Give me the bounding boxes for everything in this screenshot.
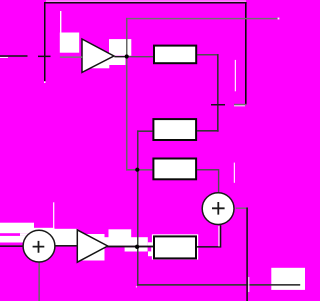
white sliver right of output vertical at bottom bbox=[248, 277, 249, 292]
wire block B3 output vertical to sum S2 bbox=[218, 169, 219, 193]
white tip at end of gray horizontal wire bbox=[278, 18, 280, 20]
label patch (white) behind sum S1 bbox=[34, 228, 55, 243]
wire input stub far left bbox=[0, 55, 28, 57]
wire top-right vertical bbox=[245, 2, 247, 105]
wire top-left vertical bbox=[44, 2, 46, 81]
wire gain G1 output to junction bbox=[114, 56, 127, 57]
wire sum S1 input from left bbox=[0, 245, 23, 247]
white vertical line above sum S1 bbox=[53, 202, 54, 229]
output block (borderless white rectangle) bottom right bbox=[271, 268, 305, 290]
label patch thin vertical white line above it bbox=[60, 11, 61, 33]
wire long gray horizontal near top bbox=[126, 18, 278, 19]
label patch (white) between sum S1 and gain G2 bbox=[53, 229, 77, 246]
white sliver below gray tick bbox=[234, 104, 245, 107]
label patch (white) right of gain G1 top bbox=[109, 39, 131, 56]
wire block B4 output horizontal bbox=[197, 246, 221, 248]
label patch (white) sliver at block B4 left edge bbox=[151, 247, 153, 251]
cross tick on left vertical wire bbox=[38, 56, 51, 58]
wire block B1 output vertical down bbox=[217, 54, 219, 132]
label patch (white) behind gain G2 bbox=[79, 234, 105, 261]
white inner corner dot at bottom wire corner bbox=[136, 286, 137, 287]
small white patch left of block B4 above wire bbox=[148, 242, 152, 245]
wire gain G2 output to block B4 bbox=[107, 246, 153, 248]
block B4 (bottom transfer block) bbox=[154, 236, 196, 258]
white sliver left of sum S2 bottom wire bbox=[218, 226, 219, 246]
white line remnant right of sum S2 column bbox=[234, 163, 235, 183]
wire top horizontal bbox=[44, 2, 247, 4]
wire gain G1 input stub bbox=[60, 56, 82, 58]
gray tick at bottom of top-right vertical bbox=[234, 104, 246, 106]
label patch (white) above gain G2 output wire bbox=[105, 237, 148, 246]
wire block B2 output horizontal bbox=[197, 130, 219, 132]
block B1 (top transfer block) bbox=[154, 46, 196, 64]
white tip at end of left vertical wire bbox=[44, 81, 46, 83]
gain G2 (triangle) bbox=[77, 230, 107, 262]
sum S2 (circle with plus) bbox=[202, 193, 234, 225]
label patch (white) left of sum S1 middle bbox=[20, 233, 34, 236]
wire vertical gray feeding block B3 bbox=[126, 18, 128, 171]
gain G1 (triangle) bbox=[82, 39, 114, 72]
sum S1 plus sign bbox=[33, 241, 45, 253]
label patch (white) under gain G1 hypotenuse bbox=[83, 56, 125, 65]
wire block B2 input horizontal bbox=[137, 130, 152, 132]
wire junction to block B1 bbox=[127, 56, 153, 57]
sum S1 (circle with plus) bbox=[23, 230, 55, 262]
label patch (white) left of sum S1 upper bbox=[0, 223, 34, 234]
label patch (white) below gain G2 output wire bbox=[125, 247, 148, 251]
white sliver below left stub bbox=[0, 56, 8, 59]
junction dot on block B3 input bbox=[135, 168, 139, 172]
wire block B1 output horizontal bbox=[197, 54, 218, 56]
wire sum S2 output vertical down bbox=[246, 208, 248, 301]
label patch (white) above gain G1 input bbox=[60, 33, 79, 53]
block B3 (lower middle transfer block) bbox=[153, 159, 196, 180]
wire sum S1 output to gain G2 bbox=[56, 245, 78, 247]
label patch (white) left of sum S1 lower bbox=[0, 236, 34, 243]
cross tick on that vertical bbox=[211, 104, 225, 106]
wire block B3 output horizontal bbox=[197, 169, 219, 171]
wire sum S2 output horizontal bbox=[236, 208, 248, 209]
wire into block B3 input bbox=[126, 169, 152, 171]
junction dot at gain G1 output bbox=[125, 54, 129, 58]
wire bottom horizontal bbox=[137, 284, 300, 286]
wire long vertical through junctions bbox=[137, 130, 139, 285]
junction dot on gain G2 output bbox=[135, 245, 139, 249]
white halo behind block B4 bbox=[152, 234, 198, 259]
block B2 (middle transfer block) bbox=[153, 119, 196, 140]
white line remnant above right column bbox=[235, 60, 236, 91]
label patch (white) left of block B4 lower bbox=[148, 251, 154, 256]
wire vertical up into sum S2 bottom bbox=[220, 225, 222, 247]
label patch (white) right of gain G2 top bbox=[109, 229, 132, 239]
white sliver above top wire bbox=[46, 0, 246, 3]
sum S2 plus sign bbox=[212, 202, 225, 215]
label patch (white) below gain G1 bbox=[83, 56, 109, 68]
wire below sum S1 vertical bbox=[38, 263, 40, 301]
